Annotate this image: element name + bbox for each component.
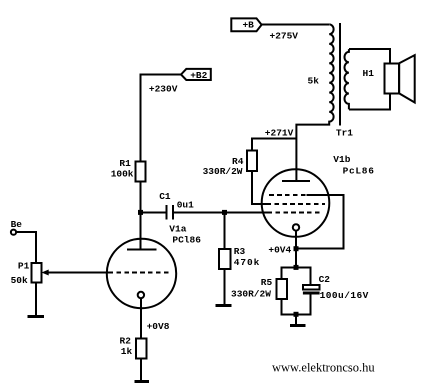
svg-text:R3: R3 xyxy=(234,246,246,257)
svg-text:R5: R5 xyxy=(261,277,273,288)
wire V1a cathode to R2 xyxy=(140,298,142,338)
resistor R2 xyxy=(136,338,147,358)
svg-text:+271V: +271V xyxy=(265,127,294,138)
ground xyxy=(135,380,149,383)
wire R1 bottom to node xyxy=(140,181,142,212)
wire node to R3 xyxy=(224,212,226,249)
ground xyxy=(28,315,44,318)
svg-text:+0V8: +0V8 xyxy=(147,321,170,332)
capacitor C2 xyxy=(303,285,320,294)
capacitor C1 xyxy=(167,205,173,220)
power tag +B xyxy=(231,18,261,31)
pentode V1b xyxy=(262,169,330,237)
resistor R5 xyxy=(276,279,287,299)
wire R5 C2 top rail xyxy=(282,267,311,285)
ground xyxy=(290,324,306,327)
svg-text:H1: H1 xyxy=(363,68,375,79)
wire +B2 to R1 xyxy=(141,75,182,162)
svg-text:www.elektroncso.hu: www.elektroncso.hu xyxy=(272,361,375,375)
wire V1b cathode down xyxy=(295,231,297,268)
wire R3 to ground xyxy=(224,269,226,305)
svg-text:Tr1: Tr1 xyxy=(336,128,353,139)
svg-text:0u1: 0u1 xyxy=(177,199,194,210)
resistor R1 xyxy=(136,161,146,181)
speaker H1 xyxy=(385,55,415,102)
triode V1a xyxy=(107,239,176,308)
svg-text:V1b: V1b xyxy=(333,154,350,165)
svg-text:V1a: V1a xyxy=(169,224,186,235)
transformer Tr1 secondary winding xyxy=(345,49,349,109)
svg-text:50k: 50k xyxy=(11,275,28,286)
node +0V4 xyxy=(294,246,299,251)
ground xyxy=(216,304,232,307)
svg-text:PcL86: PcL86 xyxy=(343,165,375,176)
svg-text:C1: C1 xyxy=(159,191,171,202)
svg-text:C2: C2 xyxy=(319,274,331,285)
wire Be to P1 xyxy=(16,232,36,263)
svg-text:+B2: +B2 xyxy=(190,70,207,81)
svg-text:100u/16V: 100u/16V xyxy=(320,290,369,301)
wire R2 to ground xyxy=(140,358,142,380)
svg-text:470k: 470k xyxy=(234,257,260,268)
transformer core xyxy=(339,23,341,126)
wire to ground xyxy=(295,314,297,324)
svg-text:+230V: +230V xyxy=(149,84,178,95)
svg-text:100k: 100k xyxy=(111,169,134,180)
wire node to C1 xyxy=(141,211,166,213)
svg-text:+275V: +275V xyxy=(270,31,299,42)
resistor R3 xyxy=(219,249,230,269)
svg-text:+B: +B xyxy=(242,20,254,31)
svg-text:R1: R1 xyxy=(119,158,131,169)
resistor R4 xyxy=(247,151,257,171)
svg-text:1k: 1k xyxy=(121,346,133,357)
wire +271V branch to R4 xyxy=(252,138,297,150)
transformer Tr1 primary winding xyxy=(296,24,333,181)
svg-text:+0V4: +0V4 xyxy=(268,244,291,255)
svg-text:5k: 5k xyxy=(308,76,320,87)
wire C1 to V1b control grid g1 xyxy=(174,211,268,213)
svg-text:Be: Be xyxy=(11,219,23,230)
wire R5 C2 bottom rail xyxy=(282,295,311,315)
wire R4 to screen grid g2 xyxy=(252,171,267,204)
potentiometer P1 xyxy=(31,263,108,283)
svg-text:P1: P1 xyxy=(18,261,30,272)
svg-text:330R/2W: 330R/2W xyxy=(203,166,243,177)
node R3 g1 xyxy=(222,210,227,215)
svg-text:R2: R2 xyxy=(120,335,132,346)
node R5C2 bottom xyxy=(294,312,299,317)
wire +B to transformer primary xyxy=(262,23,330,25)
power tag +B2 xyxy=(181,69,211,81)
svg-text:PCl86: PCl86 xyxy=(172,235,201,246)
node R5C2 top xyxy=(294,265,299,270)
wire V1a plate xyxy=(140,212,142,249)
input terminal Be xyxy=(11,230,16,235)
svg-text:330R/2W: 330R/2W xyxy=(231,289,271,300)
wire secondary loop to speaker xyxy=(349,49,390,109)
wire suppressor grid g3 to cathode node xyxy=(296,195,344,249)
wire P1 to ground xyxy=(35,283,37,316)
node R1 C1 plate xyxy=(138,210,143,215)
